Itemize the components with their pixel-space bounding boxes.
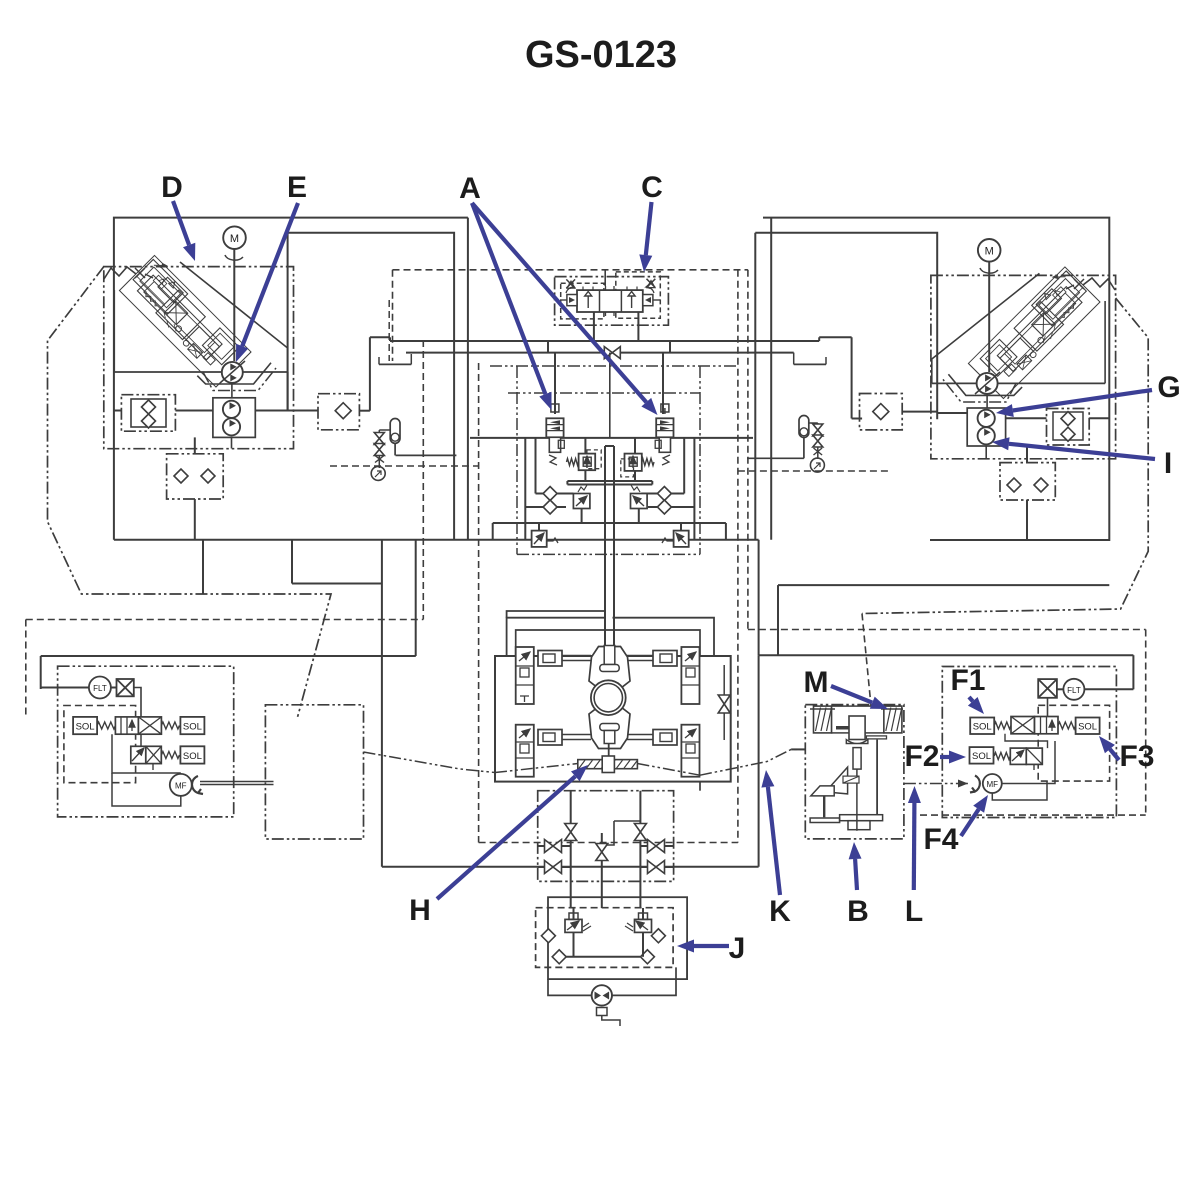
cylinder RB [653, 730, 677, 746]
wire J to pump lines [548, 979, 592, 995]
wire center double drop line [604, 446, 606, 646]
wire right step lines [758, 540, 760, 656]
svg-text:FLT: FLT [1067, 686, 1081, 695]
drain valves bowties left [545, 840, 562, 853]
wire dashed box right region [748, 629, 1146, 631]
solenoid valve body row2 [131, 746, 146, 763]
wire outer dash-dot boundary left [48, 267, 332, 717]
wire J internal [573, 932, 575, 956]
shutoff valve on bus [604, 347, 620, 359]
wire lower square drops [581, 509, 583, 524]
travel motor outer frame [495, 656, 731, 782]
svg-text:M: M [985, 246, 994, 258]
throttle X left on valve C [566, 279, 575, 288]
relief valve center-left [579, 454, 596, 471]
wire dash-dot link to travel line K [364, 752, 496, 773]
manual pump MF right [983, 774, 1002, 793]
wire lower check box link [194, 437, 196, 453]
wire valve block top bus [470, 437, 753, 439]
wire mid shelf [567, 480, 652, 482]
filter FLT right [1063, 679, 1084, 700]
valve stack motor LT [516, 647, 534, 704]
gear pump J [592, 985, 612, 1005]
wire dashed verticals center-right [737, 270, 739, 843]
wire pilot right internals [1005, 734, 1048, 748]
svg-text:SOL: SOL [973, 722, 992, 733]
check diamonds center-right [657, 487, 671, 501]
accumulator left [390, 419, 400, 444]
svg-text:A: A [459, 172, 481, 205]
wire bus left riser [369, 337, 371, 410]
label F4 arrow [961, 809, 979, 836]
wire right column drop [758, 655, 760, 867]
pump assembly D (swash plate unit) [119, 255, 251, 387]
valve C end caps [567, 295, 577, 306]
motor M2 (right electric motor) [978, 239, 1001, 262]
wire accumulator right leads [803, 438, 805, 459]
wire left enclosure right leg [467, 218, 469, 540]
svg-text:L: L [905, 895, 923, 928]
check diamonds J [541, 929, 555, 943]
solenoid valve body row1 [115, 717, 138, 734]
label M arrow [831, 686, 872, 703]
filter diamond box right-center [860, 394, 903, 430]
drain valves bowties right [648, 840, 665, 853]
center joint B flag [811, 786, 834, 796]
label F1 arrow [969, 697, 973, 701]
check valve box right-lower [1000, 463, 1055, 500]
needle valve manifold right [634, 824, 646, 841]
gauge left [371, 466, 385, 480]
wire right main enclosure [763, 218, 1109, 540]
pump unit D dash-dot boundary [104, 267, 294, 449]
wire entry squiggle D [104, 267, 136, 279]
svg-text:H: H [409, 894, 431, 927]
wire right enclosure left leg [770, 218, 772, 540]
label H arrow [437, 776, 575, 899]
pressure valve lower-right small [631, 494, 648, 509]
svg-text:C: C [641, 171, 663, 204]
pilot valve C dash-dot boundary [555, 277, 669, 326]
svg-text:MF: MF [987, 780, 999, 789]
valve stack below accumulator right [813, 424, 823, 436]
wire left check block connections [114, 410, 122, 412]
relief valve A right (towing valve) [664, 408, 666, 414]
pump P1 main circle (E) [222, 362, 243, 383]
rotary joint claw top [589, 647, 630, 690]
relief valve bottom-right with arrow [674, 531, 689, 547]
wire bus right riser [851, 337, 853, 418]
needle valve manifold left [565, 824, 577, 841]
rotary joint claw bottom [589, 706, 630, 749]
wire FLT right connections [1057, 688, 1064, 690]
center joint B piston [849, 716, 865, 740]
relief valve center-right [625, 454, 642, 471]
wire pilot left drain [112, 773, 181, 806]
MF left inlet arrow [192, 776, 203, 794]
svg-text:SOL: SOL [1078, 722, 1097, 733]
wire pump pair left stub [203, 410, 213, 412]
solenoid SOL left-2 [180, 717, 204, 734]
needle valve manifold center [596, 844, 608, 861]
wire MF left suction pipe [200, 781, 274, 783]
cylinder LB [538, 730, 562, 746]
filter diamond box right-of-pumps [1047, 409, 1090, 446]
wire dash-dot cluster boundary [517, 553, 700, 555]
label G arrow [1013, 390, 1152, 411]
wire diamond links [536, 493, 544, 495]
relief valve J left [565, 919, 582, 932]
solenoid SOL F2 [970, 747, 994, 764]
wire filter box leads [255, 410, 318, 412]
valve stack motor RT [681, 647, 699, 704]
svg-text:MF: MF [175, 782, 187, 791]
wire valve C drops [593, 312, 595, 341]
wire entry squiggle right [1083, 278, 1115, 290]
check valve box left-lower [167, 454, 224, 499]
wire center verticals to A valves [554, 353, 556, 414]
wire dashed box left region [26, 619, 424, 621]
wire center bus lower [406, 352, 794, 354]
wire left box bottom verticals [291, 540, 293, 584]
wire left inner top step [288, 233, 455, 540]
wire pilot left internals [140, 734, 142, 746]
wire bus left bracket [379, 363, 411, 365]
cylinder LT [538, 651, 562, 667]
MF right inlet arrow [970, 776, 980, 793]
svg-text:SOL: SOL [183, 751, 202, 762]
wire motor M1 shaft [233, 249, 235, 361]
wire cluster lower shelf [493, 522, 726, 524]
label A arrow 2 [472, 203, 646, 402]
hatched swivel bar H [578, 760, 638, 769]
svg-text:B: B [847, 895, 869, 928]
wire right slant dashed to B [862, 614, 872, 713]
label F2 arrow [940, 755, 949, 759]
shutoff manifold dash-dot box [538, 791, 674, 882]
svg-text:E: E [287, 171, 307, 204]
label J arrow [694, 944, 729, 948]
travel motor inner frame [507, 618, 605, 656]
filter element xbox right [1038, 679, 1057, 698]
svg-text:GS-0123: GS-0123 [525, 34, 677, 76]
label I arrow [1009, 444, 1155, 459]
manual pump MF left [170, 774, 192, 796]
wire left column verticals [381, 540, 383, 867]
svg-text:J: J [729, 932, 746, 965]
svg-text:M: M [230, 233, 239, 245]
motor M1 (left electric motor) [223, 226, 246, 249]
spring left row2 [161, 752, 179, 759]
pilot valve C right dashed box [616, 272, 661, 318]
wire right inner top step [755, 233, 937, 420]
center joint B bracket [840, 815, 883, 821]
wire envelope V left [113, 290, 115, 372]
swash lip right [948, 374, 1022, 395]
svg-text:I: I [1164, 447, 1172, 480]
check valve block left (dual diamonds) [121, 395, 175, 432]
svg-text:M: M [804, 666, 829, 699]
wire envelope V right [1104, 301, 1106, 383]
gauge right [810, 458, 824, 472]
pump pair G-left block [213, 398, 255, 438]
filter diamond box left-center [318, 394, 359, 430]
label F3 arrow [1110, 749, 1119, 760]
wire dashed bottom center horizontal [479, 842, 738, 844]
center joint B top hatched cap [814, 706, 832, 733]
wire center square drops [584, 438, 586, 454]
wire B inlet line [791, 748, 805, 750]
label E arrow [242, 203, 298, 346]
svg-text:K: K [769, 895, 791, 928]
wire bottom bus long horizontal [114, 539, 759, 541]
wire center bus upper [390, 340, 819, 342]
wire outer dash-dot boundary right [862, 298, 1148, 614]
wire envelope base right [932, 382, 1105, 384]
check diamonds center-left [543, 487, 557, 501]
solenoid SOL F3 [1076, 718, 1100, 735]
center joint B base plate [810, 818, 840, 823]
wire motor block top manifold [516, 630, 700, 656]
wire pump P1 to lines [220, 361, 245, 383]
label A arrow 1 [472, 203, 545, 394]
throttle X right on valve C [647, 279, 656, 288]
wire pilot right drain box [1002, 741, 1055, 784]
counterbalance block J outer solid box [548, 897, 687, 979]
right side hourglass valve in motor block [718, 695, 730, 713]
label L arrow [912, 803, 917, 890]
wire accumulator left leads [394, 443, 396, 455]
svg-text:SOL: SOL [972, 751, 991, 762]
wire left main enclosure [114, 218, 468, 540]
wire travel pilot line K to B [700, 749, 805, 775]
pump assembly right (swash plate unit) [968, 266, 1100, 398]
svg-text:SOL: SOL [183, 722, 202, 733]
travel motor block outer box [507, 611, 605, 618]
pressure valve lower-left small [573, 494, 590, 509]
center joint B cone lever [826, 767, 848, 794]
solenoid SOL left-1 [73, 717, 97, 734]
pilot unit left dash-dot box [58, 666, 234, 817]
wire dashed top center horizontal [393, 269, 748, 271]
label B arrow [855, 859, 857, 890]
pilot valve C body [577, 290, 643, 312]
wire pump J drain [597, 1008, 608, 1016]
wire cluster side rails [524, 438, 526, 540]
wire swivel flare dash-dot [495, 764, 578, 773]
solenoid valve body right row1 [1011, 717, 1035, 734]
relief valve bottom-left with arrow [532, 531, 547, 547]
label C arrow [646, 202, 652, 255]
solenoid SOL left-3 [180, 746, 204, 763]
spring left row1 [97, 722, 115, 729]
wire drain stubs [538, 845, 545, 847]
rotary joint center circle [591, 680, 626, 715]
pump pair G and I circles [967, 408, 1005, 446]
wire right lower check link [1026, 445, 1028, 463]
cylinder RT [653, 651, 677, 667]
filter element xbox left [117, 679, 134, 696]
relief valve J right [635, 919, 652, 932]
valve stack motor LB [516, 725, 534, 777]
accumulator right [799, 416, 809, 438]
valve stack below accumulator left [374, 433, 384, 445]
swash lip left [197, 363, 271, 384]
wire pump P2 tilt [975, 372, 1000, 394]
counterbalance block J dashed box [536, 908, 674, 968]
valve stack motor RB [681, 725, 699, 777]
svg-text:D: D [161, 171, 183, 204]
pilot unit right inner dashed box [1038, 705, 1109, 781]
wire bottom relief links [538, 523, 540, 531]
wire bottom long horizontal [382, 866, 759, 868]
svg-text:F1: F1 [950, 664, 985, 697]
wire motor block bottom stub [699, 782, 701, 791]
svg-text:F3: F3 [1119, 740, 1154, 773]
wire right filter leads [1006, 417, 1047, 419]
svg-text:F2: F2 [904, 740, 939, 773]
svg-text:G: G [1157, 371, 1180, 404]
center joint B right column [876, 740, 878, 815]
junction box dash-dot mid-left [265, 705, 363, 839]
wire envelope base left [114, 371, 287, 373]
wire dashed verticals center-left [392, 270, 394, 361]
solenoid SOL F1 [970, 718, 994, 735]
svg-text:F4: F4 [923, 823, 958, 856]
spring right row2 [994, 753, 1010, 760]
wire dash-dot mid horizontals [490, 365, 737, 367]
center joint B dash-dot box [805, 705, 904, 839]
wire left horizontal to pilot [41, 655, 416, 657]
svg-text:FLT: FLT [93, 684, 107, 693]
relief valve A left (towing valve) [554, 408, 556, 414]
wire bus right bracket [794, 363, 826, 365]
pump unit dash-dot boundary right [931, 275, 1116, 458]
pump P2 main circle right [977, 373, 998, 394]
wire motor M2 shaft [988, 262, 990, 372]
spring right row1 left [994, 722, 1011, 729]
spring right row1 right [1058, 722, 1076, 729]
wire right row leads [902, 411, 937, 413]
wire manifold verticals [570, 791, 572, 908]
filter FLT left [89, 677, 111, 699]
solenoid valve body right row2 [1010, 748, 1026, 764]
pilot valve C left dashed box [561, 283, 604, 319]
spring left row1 right [161, 722, 179, 729]
pilot unit right dash-dot box F [942, 667, 1116, 818]
svg-text:SOL: SOL [76, 722, 95, 733]
wire FLT connections [41, 687, 89, 689]
wire dash-dot B to MF right [904, 783, 968, 785]
pilot unit left inner dashed box [64, 706, 136, 783]
label D arrow [173, 201, 189, 245]
label K arrow [768, 787, 780, 895]
